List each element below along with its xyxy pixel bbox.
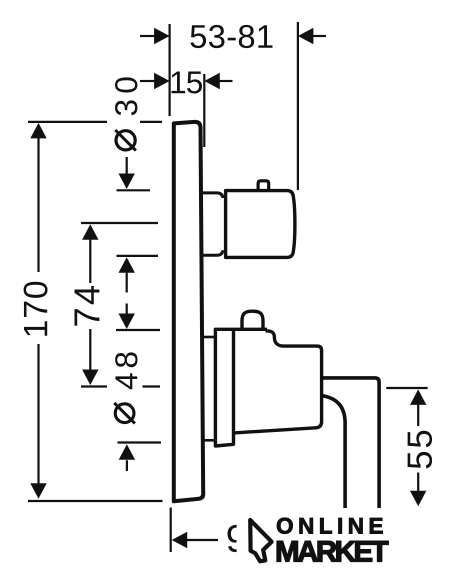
arrow 55 top [410, 389, 426, 405]
text 48 [115, 352, 137, 389]
dim O30 lower shaft stub [126, 272, 128, 293]
dim 170 shaft upper [37, 138, 39, 272]
knob1 sleeve top [202, 193, 223, 198]
text 170 [24, 282, 48, 336]
extension line E2 (plate bottom level) [28, 500, 163, 502]
arrow 74 top [82, 224, 98, 240]
extension line E1b [140, 121, 162, 123]
knob1 tab [258, 181, 269, 190]
text 96 [228, 525, 267, 552]
logo cursor [250, 520, 271, 561]
text 30 [115, 77, 137, 115]
arrow 15 left [154, 73, 170, 89]
dim O48 bottom shaft [126, 460, 128, 471]
extension line O48-bottom (flange bottom) [118, 441, 162, 443]
knob2 flange [215, 329, 233, 446]
extension line 74-top (knob1 center) [81, 222, 158, 224]
dim 53-81 left tail [140, 35, 155, 37]
dim O30 shaft above [126, 157, 128, 174]
wall plate [174, 122, 203, 501]
knob2 body top segment [234, 328, 268, 331]
arrow 96 left [172, 532, 188, 548]
dim 15 right tail [220, 80, 233, 82]
logo MARKET [277, 541, 388, 561]
dim O48 upper shaft stub [126, 304, 128, 315]
extension line L2 (knob1 top) [117, 189, 151, 191]
extension line 55-top [386, 387, 427, 389]
dim 55 shaft upper [417, 405, 419, 426]
knob2 connector top [204, 336, 216, 339]
text 53-81 [191, 25, 273, 48]
dim 53-81 right tail [313, 35, 326, 37]
arrow O48 up (below) [119, 444, 135, 460]
extension line V3 (53-81 right, knob front face) [297, 22, 299, 190]
logo ONLINE [277, 518, 383, 534]
arrow O30 down [119, 174, 135, 190]
knob1 body [226, 191, 295, 258]
knob2 stem [242, 311, 263, 331]
extension line L3 (knob1 bottom) [117, 255, 159, 257]
dim 55 shaft lower [417, 473, 419, 491]
symbol diameter O30 [116, 131, 135, 150]
arrow 15 right [204, 73, 220, 89]
dim 15 left tail [140, 80, 155, 82]
knob2 connector bottom [204, 439, 216, 442]
arrow 170 top [30, 123, 46, 138]
extension line 74-bottom b [143, 385, 161, 387]
extension line V1 (plate back face, up to top dims) [169, 24, 171, 116]
arrow 53-81 left [154, 28, 170, 44]
knob1 sleeve bottom [202, 250, 223, 255]
arrow 55 bottom [410, 491, 426, 507]
arrow O30 up (below) [119, 257, 135, 273]
dim 74 shaft lower [89, 329, 91, 370]
extension line O48-top (flange top) [116, 329, 160, 331]
text 74 [74, 286, 99, 326]
dim 170 shaft lower [37, 344, 39, 484]
logo background box [237, 508, 456, 576]
arrow 53-81 right [298, 28, 314, 44]
extension line E1a (plate top level) [28, 121, 107, 123]
dim 74 shaft upper [89, 240, 91, 284]
knob2 body [234, 331, 322, 433]
lever outer [321, 378, 379, 512]
arrow O48 down (above) [119, 314, 135, 330]
arrow 74 bottom [82, 370, 98, 386]
text 15 [172, 71, 203, 93]
symbol diameter O48 [115, 404, 134, 423]
text 55 [408, 431, 432, 469]
extension line V2 (15 right) [203, 74, 205, 147]
arrow 170 bottom [30, 483, 46, 499]
extension line V4 (bottom depth dim) [170, 508, 172, 553]
extension line 74-bottom a (knob2 center) [81, 385, 107, 387]
dim 96 tail [187, 539, 218, 541]
lever inner [321, 396, 345, 513]
